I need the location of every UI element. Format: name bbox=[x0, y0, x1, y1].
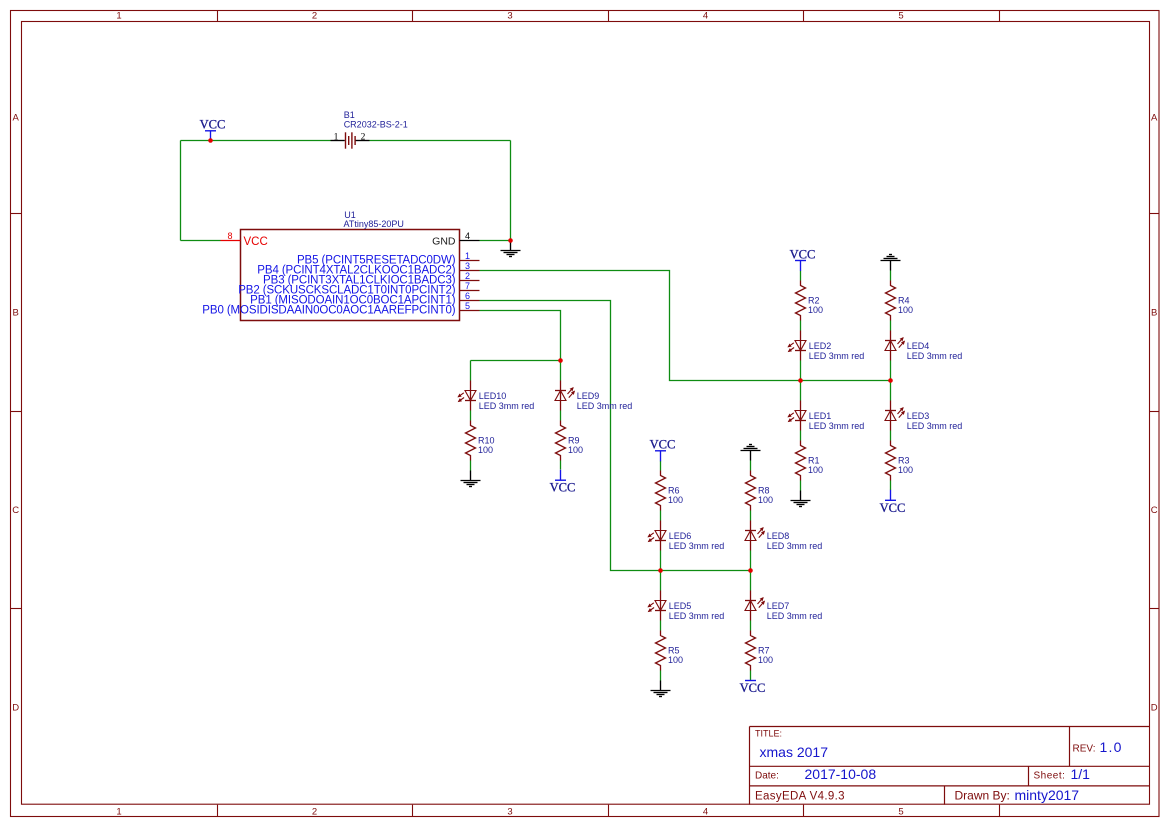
svg-text:Sheet:: Sheet: bbox=[1034, 771, 1066, 782]
svg-text:D: D bbox=[1151, 702, 1158, 713]
svg-text:5: 5 bbox=[898, 11, 903, 22]
svg-text:PB0 (MOSIDISDAAIN0OC0AOC1AAREF: PB0 (MOSIDISDAAIN0OC0AOC1AAREFPCINT0) bbox=[202, 305, 455, 317]
svg-text:VCC: VCC bbox=[244, 236, 268, 248]
svg-text:REV:: REV: bbox=[1073, 744, 1096, 755]
svg-text:LED7: LED7 bbox=[767, 601, 790, 611]
svg-text:D: D bbox=[12, 702, 19, 713]
svg-text:xmas 2017: xmas 2017 bbox=[760, 744, 829, 760]
svg-text:4: 4 bbox=[465, 231, 470, 241]
svg-text:100: 100 bbox=[478, 445, 493, 455]
svg-text:C: C bbox=[1151, 505, 1158, 516]
svg-text:4: 4 bbox=[703, 807, 708, 818]
svg-text:5: 5 bbox=[465, 301, 470, 311]
svg-text:TITLE:: TITLE: bbox=[755, 729, 782, 739]
svg-text:LED 3mm red: LED 3mm red bbox=[767, 611, 823, 621]
svg-text:LED8: LED8 bbox=[767, 531, 790, 541]
svg-text:LED4: LED4 bbox=[907, 341, 930, 351]
svg-text:6: 6 bbox=[465, 291, 470, 301]
svg-text:LED 3mm red: LED 3mm red bbox=[907, 421, 963, 431]
svg-text:3: 3 bbox=[507, 11, 512, 22]
svg-text:2017-10-08: 2017-10-08 bbox=[805, 766, 877, 782]
svg-text:LED3: LED3 bbox=[907, 411, 930, 421]
svg-text:8: 8 bbox=[227, 231, 232, 241]
svg-text:2: 2 bbox=[312, 11, 317, 22]
svg-text:LED 3mm red: LED 3mm red bbox=[577, 401, 633, 411]
svg-text:LED 3mm red: LED 3mm red bbox=[767, 541, 823, 551]
svg-text:LED 3mm red: LED 3mm red bbox=[809, 421, 865, 431]
svg-text:VCC: VCC bbox=[790, 247, 816, 261]
svg-text:LED 3mm red: LED 3mm red bbox=[809, 351, 865, 361]
svg-text:100: 100 bbox=[758, 655, 773, 665]
svg-text:CR2032-BS-2-1: CR2032-BS-2-1 bbox=[344, 120, 408, 130]
svg-text:2: 2 bbox=[465, 271, 470, 281]
svg-text:A: A bbox=[1151, 112, 1158, 123]
svg-text:100: 100 bbox=[808, 305, 823, 315]
svg-text:5: 5 bbox=[898, 807, 903, 818]
svg-text:LED 3mm red: LED 3mm red bbox=[669, 541, 725, 551]
svg-text:1: 1 bbox=[116, 807, 121, 818]
svg-text:LED1: LED1 bbox=[809, 411, 832, 421]
svg-text:100: 100 bbox=[898, 465, 913, 475]
svg-text:100: 100 bbox=[668, 655, 683, 665]
svg-text:LED10: LED10 bbox=[479, 391, 507, 401]
svg-text:B: B bbox=[13, 307, 19, 318]
svg-text:VCC: VCC bbox=[880, 501, 906, 515]
svg-text:A: A bbox=[13, 112, 20, 123]
svg-text:1: 1 bbox=[334, 132, 339, 142]
svg-text:100: 100 bbox=[568, 445, 583, 455]
svg-text:1: 1 bbox=[465, 251, 470, 261]
svg-text:VCC: VCC bbox=[550, 481, 576, 495]
svg-text:VCC: VCC bbox=[740, 681, 766, 695]
svg-text:3: 3 bbox=[507, 807, 512, 818]
svg-text:2: 2 bbox=[312, 807, 317, 818]
svg-text:C: C bbox=[12, 505, 19, 516]
svg-text:Drawn By:: Drawn By: bbox=[955, 789, 1010, 803]
svg-text:Date:: Date: bbox=[755, 771, 779, 782]
svg-text:7: 7 bbox=[465, 281, 470, 291]
svg-text:VCC: VCC bbox=[200, 118, 226, 132]
svg-text:minty2017: minty2017 bbox=[1015, 787, 1080, 803]
svg-text:EasyEDA V4.9.3: EasyEDA V4.9.3 bbox=[755, 791, 845, 803]
svg-text:1.0: 1.0 bbox=[1100, 739, 1123, 755]
svg-text:100: 100 bbox=[758, 495, 773, 505]
svg-text:LED 3mm red: LED 3mm red bbox=[479, 401, 535, 411]
svg-text:3: 3 bbox=[465, 261, 470, 271]
svg-text:2: 2 bbox=[361, 132, 366, 142]
svg-text:LED5: LED5 bbox=[669, 601, 692, 611]
svg-text:100: 100 bbox=[668, 495, 683, 505]
svg-text:100: 100 bbox=[898, 305, 913, 315]
svg-text:4: 4 bbox=[703, 11, 708, 22]
svg-text:VCC: VCC bbox=[650, 438, 676, 452]
svg-text:GND: GND bbox=[432, 236, 456, 248]
svg-text:1: 1 bbox=[116, 11, 121, 22]
svg-text:B1: B1 bbox=[344, 110, 355, 120]
svg-text:100: 100 bbox=[808, 465, 823, 475]
svg-text:LED6: LED6 bbox=[669, 531, 692, 541]
svg-text:LED9: LED9 bbox=[577, 391, 600, 401]
svg-text:1/1: 1/1 bbox=[1071, 766, 1091, 782]
svg-text:LED2: LED2 bbox=[809, 341, 832, 351]
svg-text:B: B bbox=[1151, 307, 1157, 318]
svg-text:ATtiny85-20PU: ATtiny85-20PU bbox=[344, 219, 404, 229]
svg-text:LED 3mm red: LED 3mm red bbox=[669, 611, 725, 621]
svg-text:LED 3mm red: LED 3mm red bbox=[907, 351, 963, 361]
